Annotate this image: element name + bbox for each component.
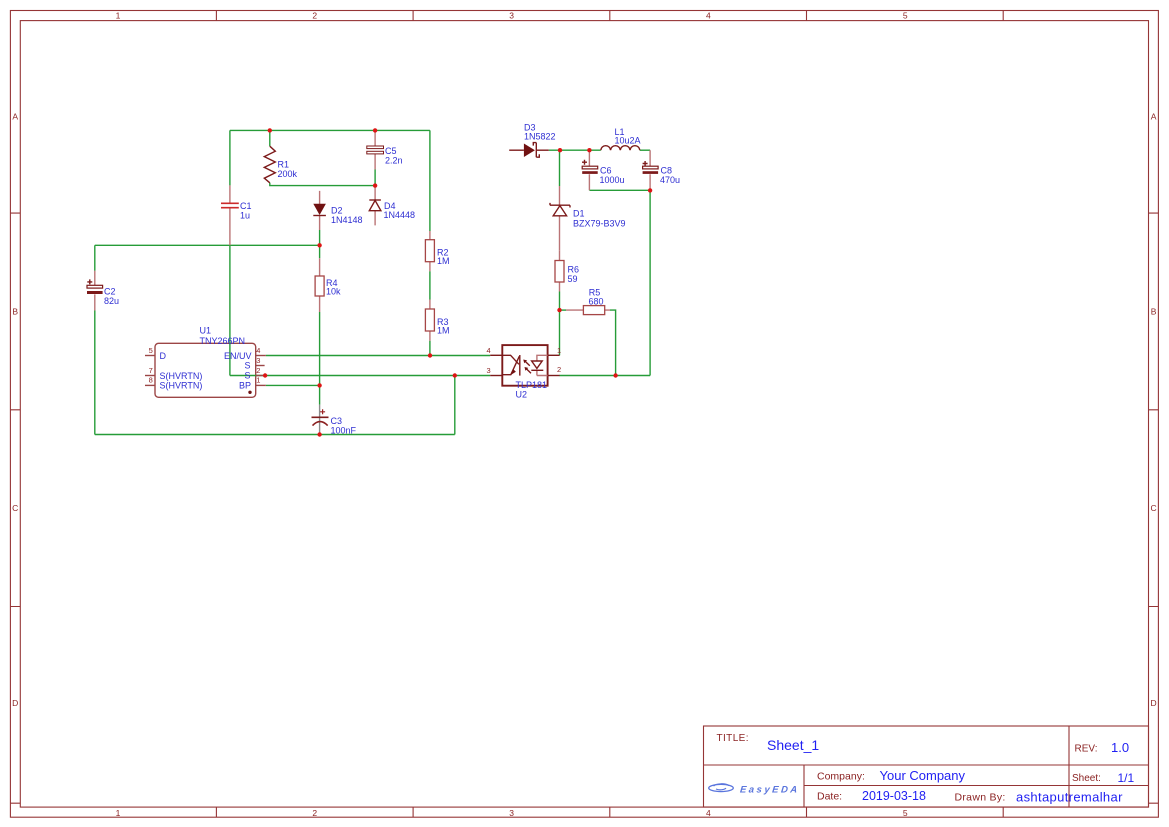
- capacitor C1: [221, 185, 252, 245]
- svg-text:D1: D1: [573, 208, 585, 218]
- junction R1 top: [268, 128, 272, 132]
- wire C2 rail: [95, 244, 320, 246]
- junction C6 top: [587, 148, 591, 152]
- svg-text:470u: 470u: [660, 175, 680, 185]
- svg-text:680: 680: [589, 296, 604, 306]
- svg-text:4: 4: [256, 346, 260, 355]
- IC U1 TNY266PN labels: [200, 326, 246, 347]
- U2 pin 1: [548, 346, 562, 355]
- junction C6-C8 bottom: [648, 188, 652, 192]
- U1 pin 1 BP: [239, 376, 266, 394]
- svg-text:EN/UV: EN/UV: [224, 351, 252, 361]
- U1 pin 8 S(HVRTN): [145, 376, 202, 391]
- resistor R6: [555, 251, 579, 292]
- svg-text:U2: U2: [516, 390, 528, 400]
- svg-text:C5: C5: [385, 146, 397, 156]
- svg-text:2: 2: [312, 11, 317, 21]
- svg-text:2: 2: [256, 366, 260, 375]
- wire C2 top segment: [94, 245, 96, 270]
- svg-text:Company:: Company:: [817, 771, 865, 783]
- svg-text:3: 3: [509, 808, 514, 818]
- title block: [704, 726, 1149, 807]
- svg-text:1M: 1M: [437, 326, 450, 336]
- wire R6 node down to U2 pin1: [559, 310, 561, 355]
- wire C8 column down to U2 pin2 row: [649, 190, 651, 375]
- zener diode D1 BZX79: [550, 186, 626, 251]
- svg-text:Sheet:: Sheet:: [1072, 773, 1101, 784]
- wire C2 bottom to ground rail: [94, 311, 96, 435]
- capacitor C8: [643, 150, 680, 190]
- resistor R1: [264, 146, 297, 183]
- wire top rail from C1 column to R2 column: [230, 129, 430, 131]
- svg-text:1: 1: [116, 808, 121, 818]
- svg-text:10k: 10k: [326, 286, 341, 296]
- wire U2 pin2 row to C8 column: [559, 375, 650, 377]
- IC U1 body: [155, 343, 256, 397]
- svg-text:2019-03-18: 2019-03-18: [862, 789, 926, 803]
- svg-text:EasyEDA: EasyEDA: [739, 785, 800, 796]
- svg-text:5: 5: [149, 346, 153, 355]
- svg-text:1: 1: [557, 346, 561, 355]
- capacitor C2: [87, 271, 119, 311]
- svg-text:59: 59: [568, 274, 578, 284]
- wire D3 cathode rail to L1: [549, 149, 601, 151]
- svg-text:Drawn By:: Drawn By:: [955, 792, 1006, 804]
- junction U1 pin2: [263, 373, 267, 377]
- wire R6 bottom node: [559, 292, 561, 311]
- svg-text:4: 4: [706, 11, 711, 21]
- wire EN/UV row pin4 to U2 pin4: [266, 355, 490, 357]
- U2 pin 2: [548, 365, 562, 376]
- svg-text:REV:: REV:: [1075, 744, 1098, 755]
- svg-text:S(HVRTN): S(HVRTN): [160, 371, 203, 381]
- svg-text:1M: 1M: [437, 256, 450, 266]
- svg-text:S(HVRTN): S(HVRTN): [160, 381, 203, 391]
- wire C6 bottom to C8 bottom: [589, 189, 650, 191]
- svg-text:A: A: [12, 111, 18, 121]
- svg-text:B: B: [1151, 306, 1157, 316]
- svg-text:Sheet_1: Sheet_1: [767, 737, 819, 753]
- junction BP row / C3 top: [317, 383, 321, 387]
- wire R1 top lead segment: [269, 130, 271, 146]
- capacitor C5: [367, 130, 403, 169]
- wire C5 bottom segment: [374, 170, 376, 186]
- wire bottom return rail: [95, 434, 455, 436]
- capacitor C3: [312, 405, 357, 436]
- svg-text:C: C: [12, 503, 18, 513]
- svg-text:Your Company: Your Company: [880, 768, 966, 783]
- svg-text:B: B: [12, 306, 18, 316]
- svg-text:1u: 1u: [240, 210, 250, 220]
- wire L1 to C8 corner: [640, 149, 650, 151]
- wire D1 anode segment: [559, 150, 561, 186]
- svg-text:3: 3: [509, 11, 514, 21]
- wire R5 right corner down to pin2 row: [610, 310, 616, 375]
- svg-text:4: 4: [487, 346, 491, 355]
- U1 pin 3 S: [244, 356, 264, 371]
- svg-text:ashtaputremalhar: ashtaputremalhar: [1016, 790, 1123, 805]
- svg-text:2: 2: [557, 365, 561, 374]
- U2 pin 3: [487, 366, 503, 375]
- wire R2 column top segment: [429, 130, 431, 231]
- wire BP row pin1 to C3: [266, 384, 320, 386]
- junction C5 bottom / D4: [373, 183, 377, 187]
- wire pin2 source row to U2 pin3: [230, 375, 490, 377]
- svg-text:U1: U1: [200, 326, 212, 336]
- diode D3 1N5822 schottky: [509, 122, 555, 157]
- svg-text:1N4148: 1N4148: [331, 215, 363, 225]
- junction EN/UV row / R3 bottom: [428, 353, 432, 357]
- junction pin2 row / bottom riser: [453, 373, 457, 377]
- svg-text:7: 7: [149, 366, 153, 375]
- U1 pin 2 S: [244, 366, 265, 381]
- capacitor C6: [582, 150, 625, 190]
- wire between R2 and R3: [429, 271, 431, 299]
- resistor R4: [315, 258, 341, 312]
- wire R1 bottom to C5 bottom: [270, 183, 375, 186]
- resistor R3: [425, 300, 449, 341]
- svg-text:D2: D2: [331, 205, 343, 215]
- svg-text:TNY266PN: TNY266PN: [200, 336, 246, 346]
- wire C1 column upper segment: [229, 130, 231, 185]
- U1 pin 7 S(HVRTN): [145, 366, 202, 381]
- wire R4 bottom to C3 top: [319, 312, 321, 405]
- inductor L1: [601, 127, 641, 150]
- wire D2 cathode to R4 top: [319, 230, 321, 258]
- diode D2: [313, 191, 362, 230]
- wire R3 bottom to EN/UV row: [429, 341, 431, 356]
- svg-text:S: S: [244, 371, 250, 381]
- svg-text:2: 2: [312, 808, 317, 818]
- svg-text:S: S: [244, 361, 250, 371]
- resistor R5: [566, 287, 610, 314]
- svg-text:3: 3: [256, 356, 260, 365]
- U2 pin 4: [487, 346, 503, 355]
- optocoupler U2 TLP181: [502, 345, 547, 399]
- svg-text:200k: 200k: [278, 169, 298, 179]
- svg-text:100nF: 100nF: [331, 425, 357, 435]
- junction C3 bottom / ground rail: [317, 432, 321, 436]
- svg-text:D: D: [1151, 698, 1157, 708]
- svg-text:BP: BP: [239, 381, 251, 391]
- svg-text:C: C: [1151, 503, 1157, 513]
- svg-text:8: 8: [149, 376, 153, 385]
- junction C2 rail / D2-R4 node: [317, 243, 321, 247]
- svg-text:2.2n: 2.2n: [385, 156, 403, 166]
- U1 pin 5 D: [145, 346, 167, 361]
- svg-text:TITLE:: TITLE:: [717, 733, 749, 744]
- svg-text:1: 1: [116, 11, 121, 21]
- svg-text:C2: C2: [104, 286, 116, 296]
- svg-text:1N4448: 1N4448: [384, 210, 416, 220]
- svg-text:C3: C3: [331, 416, 343, 426]
- svg-text:1: 1: [256, 376, 260, 385]
- svg-text:3: 3: [487, 366, 491, 375]
- EasyEDA logo: [709, 784, 801, 796]
- junction C5 top: [373, 128, 377, 132]
- svg-text:1N5822: 1N5822: [524, 131, 556, 141]
- svg-text:10u2A: 10u2A: [615, 135, 641, 145]
- resistor R2: [425, 231, 449, 271]
- svg-text:D: D: [160, 351, 167, 361]
- svg-text:1/1: 1/1: [1118, 771, 1135, 785]
- svg-text:A: A: [1151, 111, 1157, 121]
- svg-text:4: 4: [706, 808, 711, 818]
- junction R5 right / pin2 row: [613, 373, 617, 377]
- svg-text:D: D: [12, 698, 18, 708]
- svg-text:Date:: Date:: [817, 791, 842, 803]
- svg-text:R1: R1: [278, 160, 290, 170]
- junction R6 bottom / R5 left: [557, 308, 561, 312]
- svg-text:BZX79-B3V9: BZX79-B3V9: [573, 218, 626, 228]
- wire riser from bottom rail to pin2 row: [454, 376, 456, 435]
- diode D4: [369, 186, 415, 226]
- svg-text:5: 5: [903, 11, 908, 21]
- junction D3 cathode node: [558, 148, 562, 152]
- svg-text:1.0: 1.0: [1111, 740, 1129, 755]
- svg-text:82u: 82u: [104, 296, 119, 306]
- U1 pin 4 EN/UV: [224, 346, 266, 361]
- wire R5 left node segment: [560, 309, 567, 311]
- wire C1 column lower segment down to pin2 row: [229, 245, 231, 375]
- svg-text:R6: R6: [568, 264, 580, 274]
- svg-text:1000u: 1000u: [600, 175, 625, 185]
- svg-text:5: 5: [903, 808, 908, 818]
